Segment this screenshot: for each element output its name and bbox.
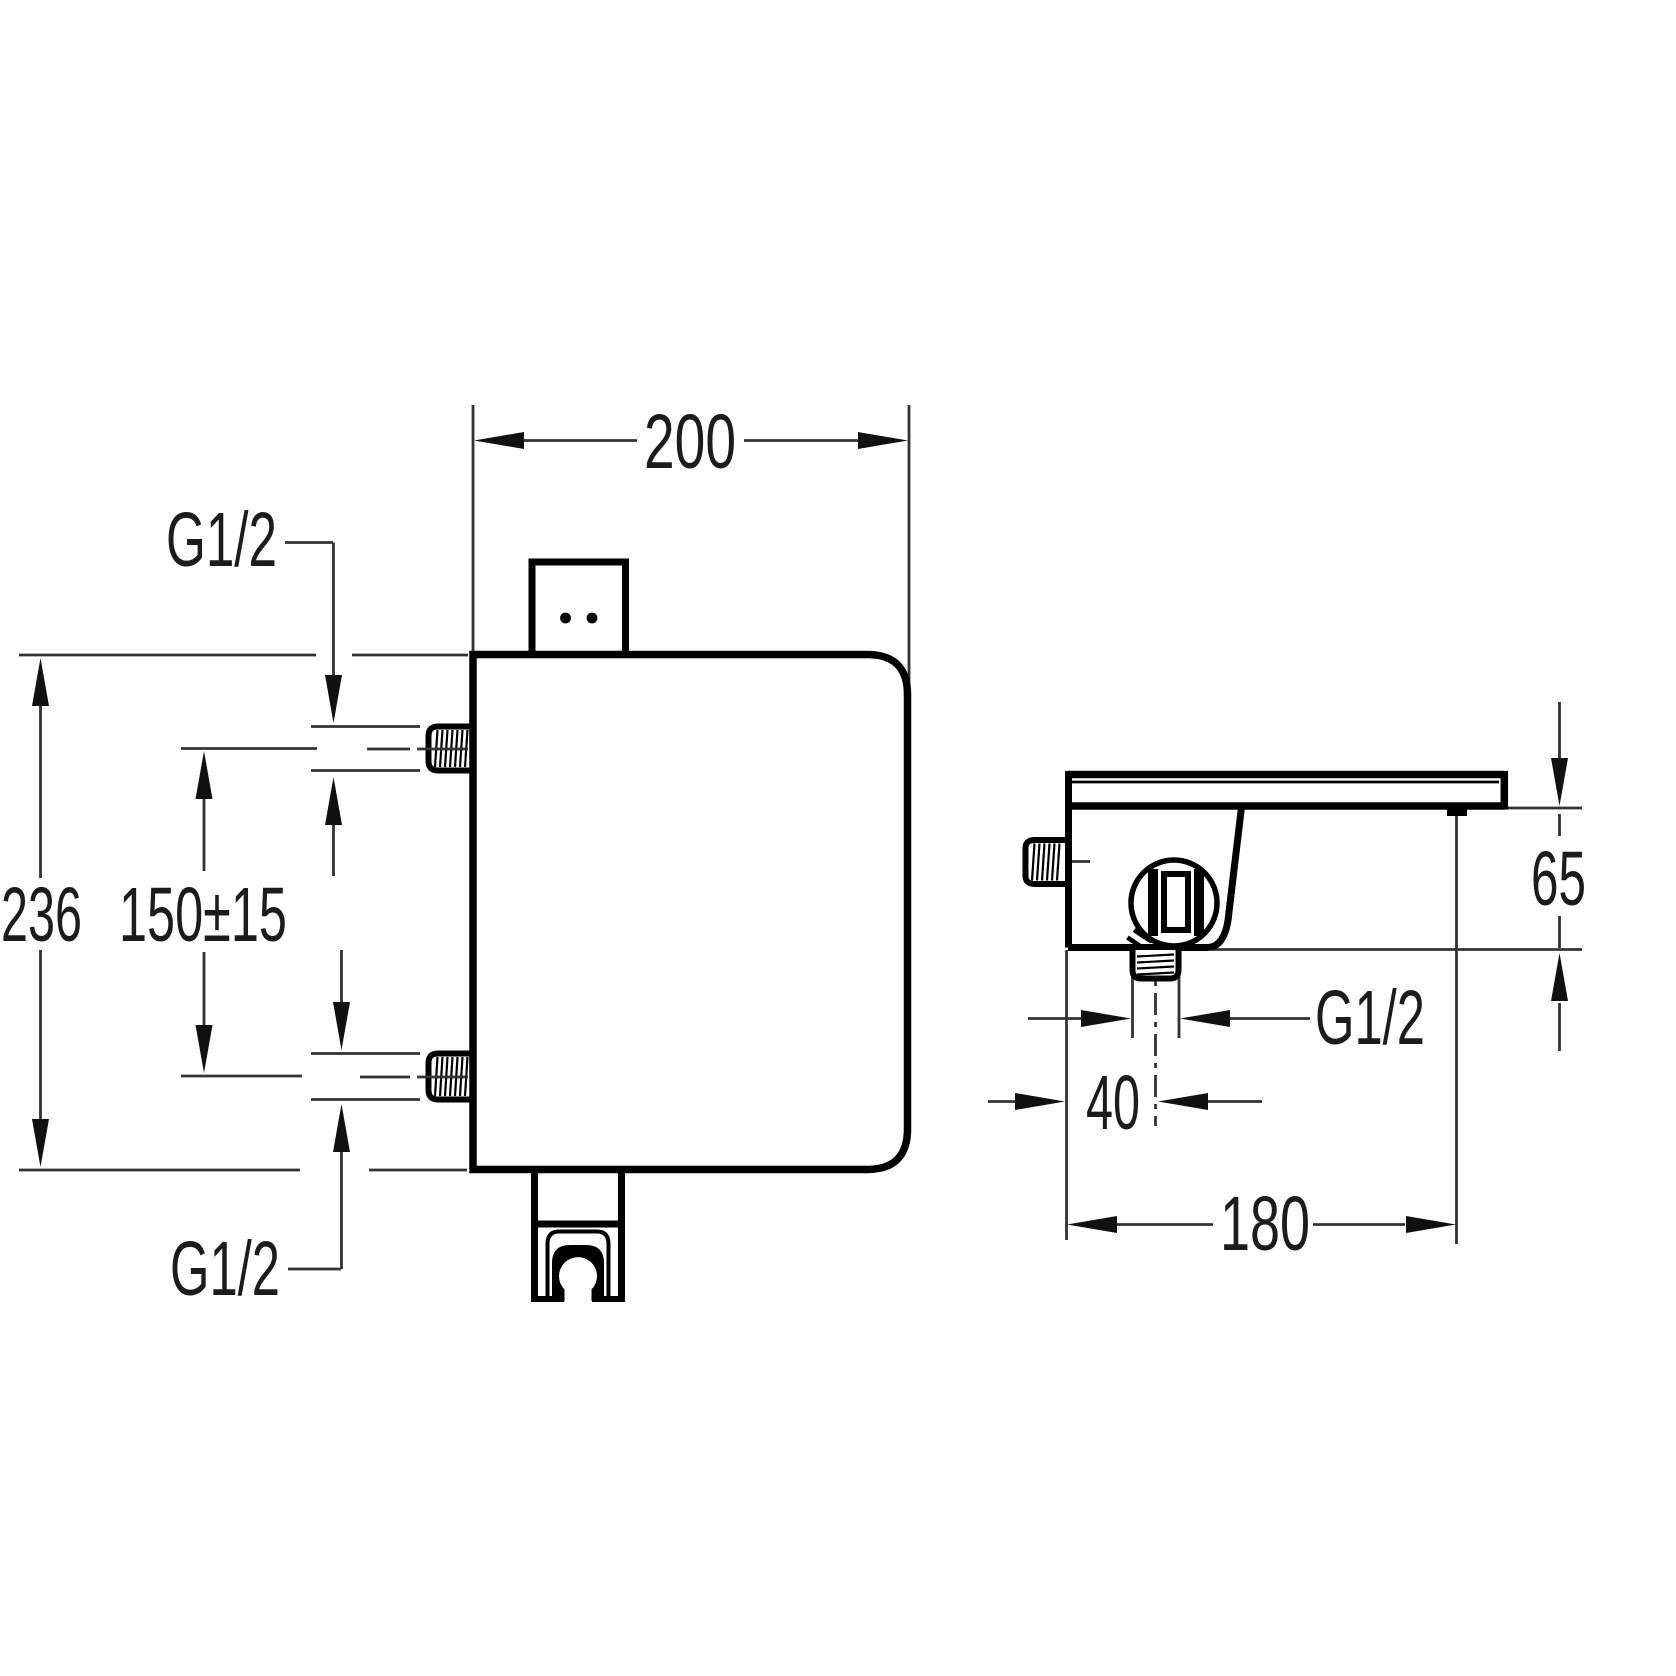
holder clip (black arch) [552, 1245, 604, 1301]
svg-text:G1/2: G1/2 [170, 1226, 280, 1312]
arrow 65 up [1551, 953, 1568, 1001]
arrow 180 right [1406, 1216, 1456, 1233]
dim 236 extension line bottom [19, 1169, 467, 1172]
dim 236 extension line top [19, 654, 468, 657]
holder cup outline [548, 1232, 609, 1297]
inlet bolt lower (front) [429, 1054, 474, 1100]
svg-text:236: 236 [1, 872, 82, 958]
dim 40 dimension line [988, 1100, 1262, 1103]
knob inner rect [1164, 874, 1188, 930]
bolt2 top tick line [311, 1052, 420, 1055]
dim 200 extension line left [472, 405, 475, 652]
arrow 40 left [1158, 1093, 1208, 1110]
arrow bolt1 up [325, 777, 342, 825]
screw dots [560, 613, 571, 624]
arrow 65 down [1551, 758, 1568, 806]
arrow 236 bottom down [32, 1119, 49, 1167]
arrow 236 top up [32, 658, 49, 706]
svg-text:200: 200 [644, 399, 736, 485]
centerline bolt2 [360, 1076, 468, 1079]
arrow 150 top up [196, 751, 213, 799]
dim 65 line top tail [1558, 702, 1561, 836]
arrow 150 bottom down [196, 1025, 213, 1073]
spout plate [1068, 771, 1505, 810]
nipple extension right [1178, 974, 1181, 1038]
main body (front) [473, 655, 908, 1170]
leader G1/2 top [285, 543, 334, 676]
nipple dashed centerline [1154, 952, 1157, 1126]
svg-text:65: 65 [1531, 836, 1586, 922]
outlet nipple [1133, 950, 1179, 979]
small lever tab [1128, 930, 1152, 950]
inlet bolt upper (front) [429, 727, 474, 771]
centerline bolt1 [367, 748, 468, 751]
dim 236 dimension line [39, 706, 42, 1119]
bolt2 down-arrow tail [340, 950, 343, 1002]
control knob circle [1131, 860, 1217, 946]
dim 150 dimension line [203, 799, 206, 1025]
arrow bolt2 down [333, 1002, 350, 1050]
arrow G1/2 left [1180, 1010, 1230, 1027]
arrow 200 left [474, 432, 524, 449]
bolt center tick [1069, 860, 1090, 863]
aerator nub [1447, 809, 1467, 816]
side body [1068, 771, 1242, 948]
arrow G1/2 right [1081, 1010, 1131, 1027]
arrow G1/2 top down [325, 675, 342, 723]
top connection square [532, 562, 626, 654]
bolt1 bottom tick line [311, 769, 420, 772]
side inlet bolt [1026, 840, 1067, 884]
dim 150 extension line top [181, 747, 317, 750]
dim 180 extension right [1455, 816, 1458, 1244]
dim 180 dimension line [1117, 1223, 1405, 1226]
bolt1 top tick line [311, 725, 420, 728]
svg-text:180: 180 [1220, 1181, 1310, 1267]
dim 65 line bottom tail [1558, 916, 1561, 1051]
bolt2 bottom tick line [311, 1098, 420, 1101]
arrow 200 right [858, 432, 908, 449]
arrow 180 left [1067, 1216, 1117, 1233]
svg-text:G1/2: G1/2 [1315, 975, 1425, 1061]
dim 150 extension line bottom [181, 1075, 302, 1078]
svg-text:40: 40 [1086, 1060, 1140, 1146]
knob inner bars [1148, 869, 1158, 936]
nipple extension left [1131, 974, 1134, 1038]
arrow 40 right [1015, 1093, 1065, 1110]
dim 180 extension left / 40 left [1065, 950, 1068, 1240]
arrow bolt2 up [333, 1104, 350, 1152]
dim 200 extension line right [908, 405, 911, 683]
dim G1/2 side dimension line [1028, 1017, 1310, 1020]
dim 200 dimension line [524, 439, 858, 442]
dim 65 extension bottom [1211, 948, 1582, 951]
G1/2 top tail below arrow [332, 825, 335, 876]
leader G1/2 bottom [288, 1152, 342, 1269]
svg-text:150±15: 150±15 [119, 872, 287, 958]
svg-text:G1/2: G1/2 [166, 497, 277, 583]
dim 65 extension top [1508, 807, 1582, 810]
handshower holder outer [531, 1169, 625, 1302]
